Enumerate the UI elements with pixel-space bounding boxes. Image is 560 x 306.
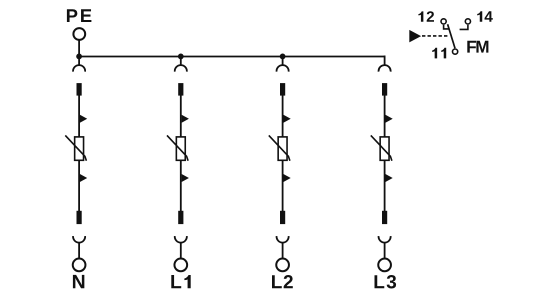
contact terminal 12	[441, 19, 446, 24]
plug contact pin (bottom bar) L1 branch	[178, 211, 183, 224]
net label L2	[272, 275, 293, 288]
dashed mechanical link to FM contact	[422, 35, 449, 37]
plug contact pin (top bar) L3 branch	[382, 83, 387, 96]
plug-in socket arc (top) L1 branch	[175, 65, 187, 72]
junction node on bus at L2 branch	[280, 54, 286, 60]
plug-in socket arc (top) L3 branch	[379, 65, 391, 72]
actuator triangle (disconnect drives FM contact)	[409, 30, 421, 43]
net label PE	[67, 9, 91, 22]
plug contact pin (bottom bar) L3 branch	[382, 211, 387, 224]
net label N	[73, 275, 84, 288]
terminal L3	[378, 259, 391, 272]
varistor L3 branch	[380, 137, 389, 160]
plug-in socket arc (bottom) L2 branch	[277, 236, 289, 243]
contact terminal 11	[453, 49, 458, 54]
junction node on bus at L1 branch	[178, 54, 184, 60]
wire: socket to terminal L3	[384, 243, 386, 259]
varistor N branch	[75, 137, 84, 160]
wire: protective path L3 branch	[384, 96, 386, 212]
wire: socket to terminal N	[78, 243, 80, 259]
pin label 11	[432, 48, 446, 59]
changeover switch lever (common 11 to contact 12)	[448, 24, 455, 48]
thermal disconnect indicator (lower triangle) L1 branch	[182, 174, 189, 182]
wire: bus stem to plug socket L1 branch	[180, 56, 182, 66]
wire: protective path L2 branch	[282, 96, 284, 212]
net label FM	[467, 41, 488, 53]
plug contact pin (top bar) L1 branch	[178, 83, 183, 96]
wire: PE terminal to bus	[78, 40, 80, 57]
thermal disconnect indicator (upper triangle) N branch	[80, 115, 87, 123]
terminal L1	[174, 259, 187, 272]
net label L1	[171, 275, 190, 288]
plug contact pin (top bar) N branch	[77, 83, 82, 96]
terminal PE	[73, 28, 85, 40]
thermal disconnect indicator (upper triangle) L1 branch	[182, 115, 189, 123]
wire: bus stem to plug socket N branch	[78, 56, 80, 66]
pin label 12	[418, 11, 434, 22]
wire: bus stem to plug socket L3 branch	[384, 56, 386, 66]
plug-in socket arc (top) L2 branch	[277, 65, 289, 72]
plug contact pin (bottom bar) N branch	[77, 211, 82, 224]
wire: protective path N branch	[78, 96, 80, 212]
varistor L1 branch	[176, 137, 185, 160]
thermal disconnect indicator (upper triangle) L2 branch	[283, 115, 290, 123]
wire: PE bus (horizontal)	[79, 56, 385, 58]
fixed contact leg 12	[444, 25, 450, 29]
pin label 14	[477, 11, 493, 22]
wire: socket to terminal L2	[282, 243, 284, 259]
contact terminal 14	[465, 19, 470, 24]
plug-in socket arc (bottom) L1 branch	[175, 236, 187, 243]
thermal disconnect indicator (lower triangle) L2 branch	[283, 174, 290, 182]
varistor L2 branch	[278, 137, 287, 160]
thermal disconnect indicator (upper triangle) L3 branch	[385, 115, 392, 123]
thermal disconnect indicator (lower triangle) L3 branch	[385, 174, 392, 182]
wire: socket to terminal L1	[180, 243, 182, 259]
plug-in socket arc (bottom) L3 branch	[379, 236, 391, 243]
plug contact pin (top bar) L2 branch	[280, 83, 285, 96]
wire: bus stem to plug socket L2 branch	[282, 56, 284, 66]
wire: protective path L1 branch	[180, 96, 182, 212]
net label L3	[375, 275, 397, 289]
terminal N	[73, 259, 86, 272]
junction node on bus at N branch	[76, 54, 82, 60]
plug-in socket arc (top) N branch	[73, 65, 85, 72]
thermal disconnect indicator (lower triangle) N branch	[80, 174, 87, 182]
terminal L2	[276, 259, 289, 272]
fixed contact leg 14	[460, 25, 468, 30]
plug contact pin (bottom bar) L2 branch	[280, 211, 285, 224]
plug-in socket arc (bottom) N branch	[73, 236, 85, 243]
